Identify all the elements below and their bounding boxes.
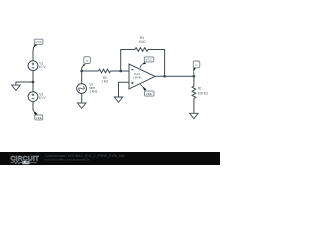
wire noninverting input to ground — [119, 82, 130, 97]
svg-text:1 kHz: 1 kHz — [89, 89, 98, 93]
junction output feedback — [163, 75, 166, 78]
wire node a to junction — [81, 66, 84, 71]
net flag VEE (left) — [33, 111, 42, 120]
junction node a — [80, 70, 83, 73]
svg-text:LAB: LAB — [23, 161, 30, 165]
footer text — [45, 154, 126, 161]
junction output node — [193, 75, 196, 78]
wire VCC flag to V1 — [32, 47, 35, 61]
label Vs sine 1 kHz — [89, 83, 98, 94]
svg-text:VEE: VEE — [36, 116, 42, 120]
ground (R1) — [190, 113, 199, 118]
wire V2 to VEE flag — [32, 102, 35, 111]
net flag VEE (op-amp) — [140, 84, 154, 96]
wire junction to R2 — [82, 70, 99, 72]
footer bar — [0, 152, 220, 165]
net flag VCC (op-amp) — [140, 57, 154, 68]
svg-text:5 kΩ: 5 kΩ — [139, 40, 146, 44]
ground (op-amp + input) — [114, 97, 123, 102]
svg-text:100 kΩ: 100 kΩ — [198, 91, 209, 95]
net flag VCC (left) — [33, 39, 43, 48]
resistor R1 — [192, 86, 196, 98]
label R2 1 kΩ — [101, 76, 108, 84]
op-amp OA1 LM741 — [129, 64, 155, 89]
wire V1 to V2 — [32, 71, 34, 92]
svg-text:LM741: LM741 — [133, 75, 142, 79]
ground (left) — [12, 85, 21, 90]
label OA1 LM741 — [133, 72, 142, 79]
label V2 10 V — [39, 93, 46, 100]
wire feedback left leg — [121, 50, 135, 72]
wire R1 to ground — [193, 99, 195, 114]
wire junction a to Vs — [81, 71, 83, 84]
svg-text:10 V: 10 V — [39, 96, 46, 100]
svg-text:VCC: VCC — [35, 40, 42, 44]
svg-text:1 kΩ: 1 kΩ — [101, 80, 108, 84]
svg-text:10 V: 10 V — [39, 65, 46, 69]
wire Vs to ground — [81, 93, 83, 103]
wire op-amp output — [155, 75, 194, 77]
svg-text:VCC: VCC — [145, 58, 153, 62]
wire R2 to op-amp inverting input — [111, 70, 130, 72]
label R1 100 kΩ — [198, 87, 209, 96]
label V1 10 V — [39, 62, 46, 69]
resistor R2 — [99, 69, 111, 73]
svg-text:R3: R3 — [140, 36, 144, 40]
wire feedback right leg — [148, 50, 165, 77]
junction feedback left — [119, 70, 122, 73]
voltage source V2 — [28, 92, 38, 102]
node tag o — [193, 61, 200, 76]
resistor R3 — [135, 48, 148, 52]
CircuitLab logo — [11, 155, 40, 164]
wire junction to ground (left) — [16, 82, 33, 85]
svg-text:VEE: VEE — [146, 92, 153, 96]
node tag a — [82, 57, 90, 67]
voltage source Vs (sine) — [77, 84, 87, 94]
label R3 5 kΩ — [139, 36, 146, 44]
svg-text:http://circuitlab.com/c/gdmzuw: http://circuitlab.com/c/gdmzuwd2n — [45, 157, 91, 161]
svg-text:R1: R1 — [198, 87, 202, 91]
voltage source V1 — [28, 61, 38, 71]
ground (Vs) — [77, 103, 86, 108]
junction left rail — [32, 81, 35, 84]
wire output node to R1 — [193, 76, 195, 86]
